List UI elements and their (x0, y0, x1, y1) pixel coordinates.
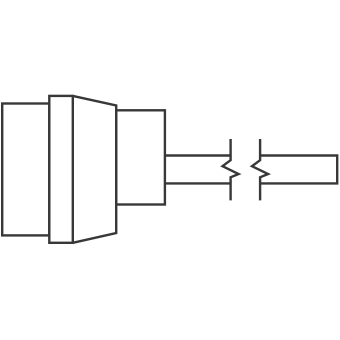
break symbol (right) (252, 139, 268, 200)
wire lead (left segment, bottom edge) (165, 182, 231, 184)
connector rear barrel (2, 104, 49, 236)
connector flange (49, 96, 73, 243)
connector front body (116, 110, 165, 204)
wire lead (right segment with capped end) (260, 156, 337, 184)
break symbol (left) (223, 139, 239, 200)
wire lead (left segment, top edge) (165, 154, 231, 156)
connector tapered body (73, 96, 116, 243)
